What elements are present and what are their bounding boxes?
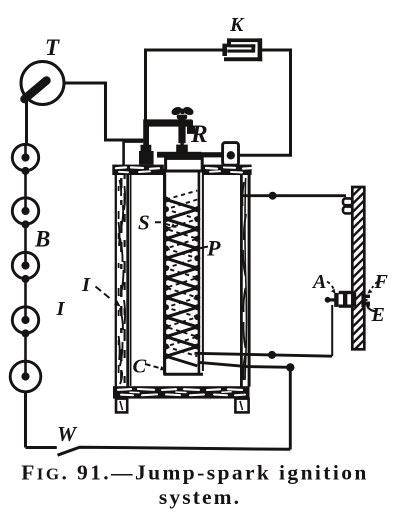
svg-text:system.: system.: [159, 485, 241, 509]
battery cell 1: [12, 144, 38, 175]
svg-text:B: B: [34, 227, 50, 252]
coil case lid: [112, 165, 251, 175]
battery cell 4: [12, 307, 38, 338]
vibrator bracket: [139, 119, 195, 164]
label F with leader: [367, 271, 388, 294]
svg-text:T: T: [45, 35, 60, 60]
svg-text:I: I: [56, 298, 66, 320]
wire: battery to ground wire W: [24, 391, 27, 448]
svg-text:R: R: [190, 121, 208, 148]
wire: condenser K to coil terminal: [239, 50, 291, 155]
svg-text:C: C: [133, 356, 147, 378]
cylinder wall (hatched): [352, 184, 364, 352]
coil case left foot: [116, 399, 127, 413]
label I (insulation) with leader: [81, 274, 121, 307]
svg-text:S: S: [138, 211, 150, 235]
coil terminal box: [223, 143, 239, 166]
svg-text:FIG. 91.—Jump-spark ignition: FIG. 91.—Jump-spark ignition: [21, 461, 369, 485]
condenser K: [222, 38, 262, 61]
wire W (ground return): [26, 447, 291, 455]
secondary winding S / primary winding P (zigzag): [163, 191, 200, 366]
svg-text:F: F: [374, 271, 389, 293]
wire: coil primary to ground wire W: [198, 362, 295, 449]
label S with leader: [138, 211, 177, 235]
wire between cells: [24, 279, 27, 307]
spark plug electrode and gap E: [361, 294, 370, 307]
vibrator adjusting screw: [177, 115, 187, 146]
wire: switch T to battery: [25, 99, 28, 145]
battery cell 3: [12, 252, 38, 283]
vibrator spring armature: [157, 145, 223, 158]
wire: coil case to spark plug top terminal: [241, 192, 346, 200]
coil case right foot: [235, 399, 248, 413]
svg-text:A: A: [311, 271, 326, 293]
coil core top cap: [166, 158, 203, 171]
label A with leader: [311, 271, 336, 294]
coil core column: [164, 168, 204, 375]
battery cell 2: [12, 198, 38, 229]
wire: vibrator post up and over to condenser K: [146, 50, 223, 121]
spark plug top terminal lugs: [343, 198, 352, 213]
spark plug body: [325, 291, 357, 308]
wire between cells: [24, 333, 27, 363]
svg-text:K: K: [229, 14, 245, 36]
wire between cells: [24, 171, 27, 198]
coil case right wall: [241, 165, 249, 387]
svg-text:P: P: [206, 236, 221, 261]
vibrator thumb screw head: [170, 105, 195, 116]
label P with leader: [186, 236, 221, 261]
coil case left wall: [116, 165, 131, 387]
svg-text:I: I: [81, 274, 91, 296]
coil case bottom plate: [113, 386, 250, 398]
svg-text:E: E: [371, 304, 385, 326]
label C with leader: [133, 356, 166, 378]
label E with leader: [365, 304, 384, 326]
wire: coil secondary to spark plug: [195, 305, 333, 359]
wire between cells: [24, 224, 27, 252]
switch T: [21, 62, 64, 105]
wire: switch T to vibrator post: [63, 83, 144, 140]
svg-text:W: W: [57, 422, 78, 446]
battery cell 5: [10, 361, 41, 392]
